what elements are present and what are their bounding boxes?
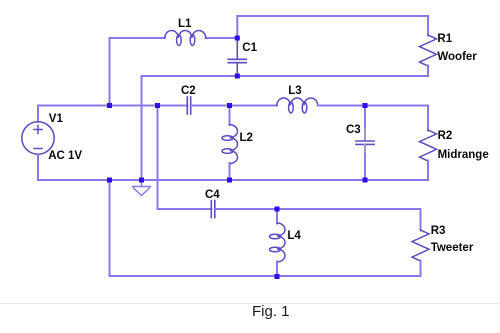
label Tweeter xyxy=(431,242,474,254)
wire woofer bottom y76 xyxy=(142,75,429,77)
resistor R1 xyxy=(427,16,429,36)
wire L1 right lead xyxy=(206,37,238,39)
capacitor C2 xyxy=(187,97,190,114)
wire L1 left riser xyxy=(110,38,165,106)
wire V1 bottom xyxy=(38,154,428,180)
wire C4 to R3 xyxy=(215,208,421,210)
node (237,38) xyxy=(235,36,240,41)
label AC 1V xyxy=(48,150,82,162)
node (141.5,180) xyxy=(139,178,144,183)
node (157.5,105.5) xyxy=(155,103,160,108)
node (277,209) xyxy=(275,207,280,212)
ground xyxy=(133,180,151,196)
node (237,76) xyxy=(235,74,240,79)
label Woofer xyxy=(437,51,476,63)
inductor L3 xyxy=(277,98,318,113)
wire V1 top xyxy=(38,106,187,122)
wire bottom rail xyxy=(110,180,421,276)
label C4 xyxy=(205,189,220,201)
inductor L2 xyxy=(229,106,231,126)
wire tweeter feed column xyxy=(158,106,212,210)
label R1 xyxy=(437,33,452,45)
wire C1 top riser xyxy=(236,16,238,38)
label C3 xyxy=(346,124,361,136)
label R3 xyxy=(431,225,446,237)
wire ground column xyxy=(141,76,143,180)
wire L3 to R2 xyxy=(318,105,428,107)
wire C2 to L3 xyxy=(191,105,277,107)
inductor L1 xyxy=(165,30,206,45)
label L1 xyxy=(178,18,191,30)
node (109.5,105.5) xyxy=(107,103,112,108)
label R2 xyxy=(438,130,453,142)
resistor R3 xyxy=(420,209,422,231)
label Midrange xyxy=(438,149,489,161)
node (229.5,105.5) xyxy=(227,103,232,108)
capacitor C3 xyxy=(364,106,366,130)
node (365,105.5) xyxy=(363,103,368,108)
label C2 xyxy=(181,85,196,97)
resistor R2 xyxy=(427,106,429,131)
node (277,276.5) xyxy=(275,274,280,279)
caption Fig. 1 xyxy=(252,303,290,320)
voltage source V1 xyxy=(22,122,54,154)
label C1 xyxy=(242,42,257,54)
label L4 xyxy=(287,230,300,242)
capacitor C1 xyxy=(228,38,246,76)
wire top rail xyxy=(237,15,428,17)
node (365,180) xyxy=(363,178,368,183)
label L2 xyxy=(240,132,253,144)
separator xyxy=(0,303,500,304)
label L3 xyxy=(288,85,301,97)
node (229.5,180) xyxy=(227,178,232,183)
node (109.5,180) xyxy=(107,178,112,183)
inductor L4 xyxy=(276,209,278,224)
capacitor C4 xyxy=(211,201,215,218)
label V1 xyxy=(49,113,63,125)
